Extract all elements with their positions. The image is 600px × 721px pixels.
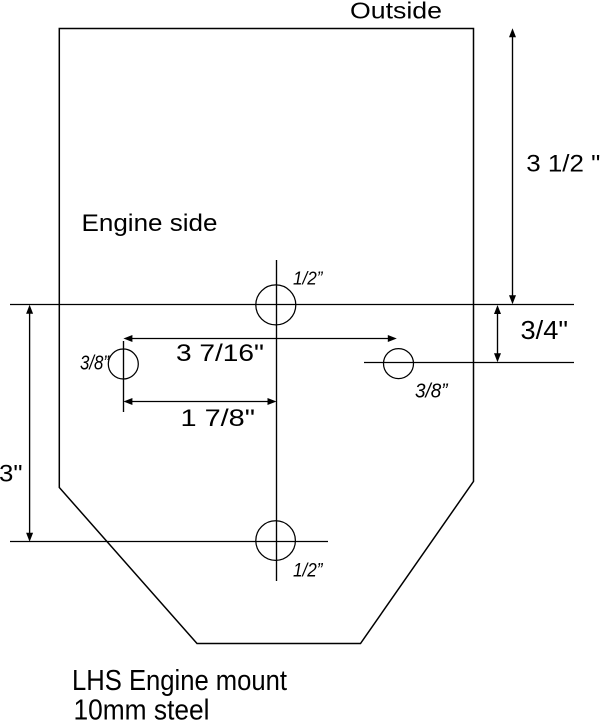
dimension 3 line vertical left bbox=[26, 305, 33, 542]
extension line through right 3/8 hole bbox=[364, 362, 574, 364]
svg-text:3/8”: 3/8” bbox=[80, 353, 110, 375]
extension line left 3/8 hole vertical bbox=[123, 341, 125, 412]
svg-text:1 7/8": 1 7/8" bbox=[181, 405, 256, 432]
dimension 3 1/2 line vertical right bbox=[509, 28, 516, 304]
extension line bottom y541 bbox=[10, 541, 328, 543]
hole right 3/8 inch bbox=[384, 349, 414, 379]
svg-text:3 7/16": 3 7/16" bbox=[176, 340, 264, 367]
svg-text:LHS Engine mount: LHS Engine mount bbox=[72, 665, 287, 697]
svg-text:10mm steel: 10mm steel bbox=[74, 695, 210, 721]
svg-text:3/8”: 3/8” bbox=[415, 381, 449, 403]
dimension 1 7/8 line bbox=[123, 398, 276, 405]
hole bottom 1/2 inch bbox=[256, 521, 296, 561]
datum line horizontal y304 bbox=[10, 304, 574, 306]
svg-text:Engine side: Engine side bbox=[82, 210, 218, 237]
svg-text:Outside: Outside bbox=[350, 0, 442, 24]
centerline vertical through 1/2 inch holes bbox=[276, 260, 278, 581]
svg-text:3/4": 3/4" bbox=[521, 317, 569, 345]
svg-text:1/2”: 1/2” bbox=[293, 268, 323, 289]
dimension 3/4 line vertical bbox=[494, 305, 501, 362]
svg-text:3 1/2 ": 3 1/2 " bbox=[526, 151, 600, 178]
hole left 3/8 inch bbox=[108, 349, 138, 379]
svg-text:3": 3" bbox=[0, 461, 23, 488]
dimension 3 7/16 line bbox=[123, 335, 396, 342]
hole top 1/2 inch bbox=[256, 285, 296, 325]
plate outline bbox=[59, 29, 473, 644]
svg-text:1/2”: 1/2” bbox=[293, 561, 324, 582]
